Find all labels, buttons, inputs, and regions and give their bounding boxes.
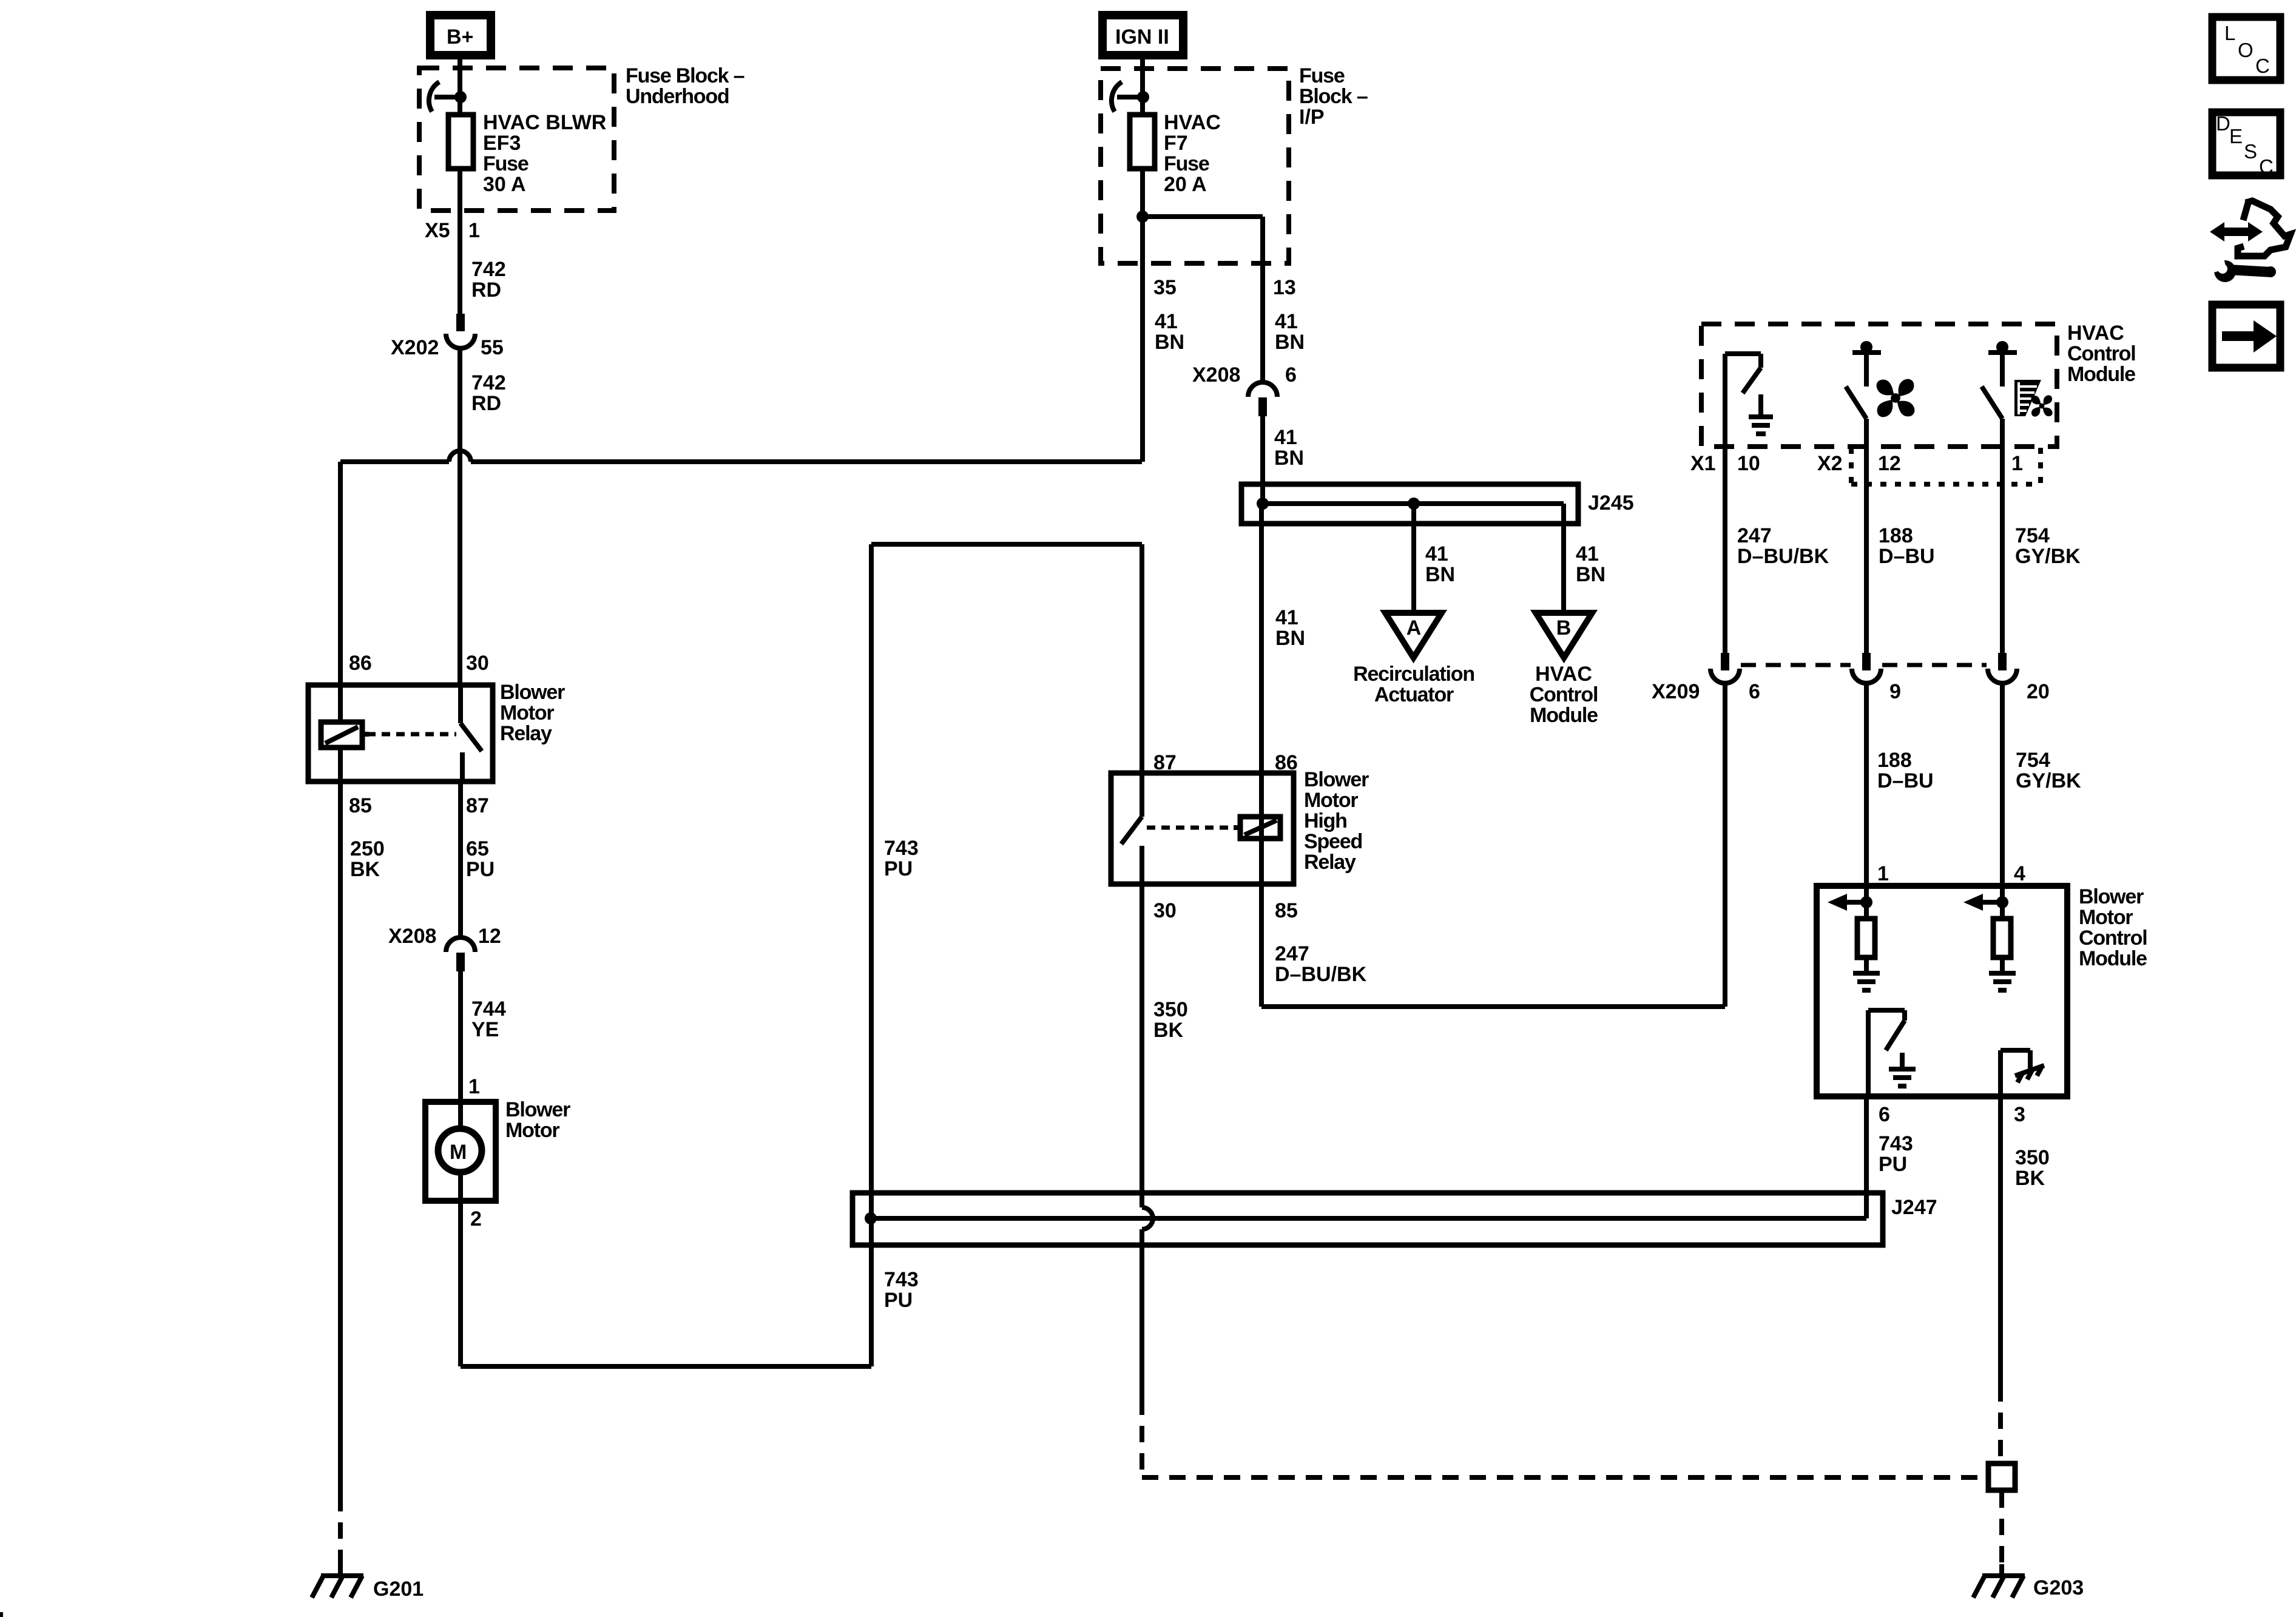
svg-text:743: 743 (884, 837, 919, 860)
svg-text:GY/BK: GY/BK (2015, 545, 2081, 568)
wire label 250 BK (350, 837, 385, 881)
wire 41 BN X208-6 to J245 (1260, 416, 1265, 504)
relay pin labels 86 30 (349, 652, 489, 675)
svg-text:D–BU: D–BU (1879, 545, 1935, 568)
svg-text:BK: BK (350, 858, 380, 881)
svg-text:20 A: 20 A (1164, 173, 1207, 196)
svg-text:Control: Control (2079, 927, 2147, 950)
svg-text:RD: RD (471, 279, 501, 302)
svg-text:J247: J247 (1891, 1196, 1937, 1219)
wire label 41 BN (pin 35) (1155, 310, 1184, 354)
svg-text:BN: BN (1275, 627, 1305, 650)
signal ground (module switch) (1889, 1053, 1916, 1086)
svg-text:Underhood: Underhood (626, 85, 729, 108)
blower motor control module label (2079, 885, 2147, 970)
svg-text:Actuator: Actuator (1374, 683, 1454, 706)
wire 744 YE to blower motor (458, 971, 463, 1102)
module pin 3 chassis ground (2001, 1050, 2044, 1096)
svg-text:65: 65 (466, 837, 489, 860)
svg-text:30 A: 30 A (483, 173, 526, 196)
blower motor high speed relay (1111, 773, 1294, 884)
svg-text:55: 55 (481, 336, 504, 359)
ground G203 (1973, 1564, 2025, 1598)
wire label 188 D-BU (lower) (1877, 749, 1934, 792)
connector X202 pin 55 (446, 314, 475, 348)
svg-text:12: 12 (478, 925, 501, 948)
svg-text:HVAC BLWR: HVAC BLWR (483, 111, 606, 134)
blower motor control module (1817, 886, 2067, 1096)
svg-text:Fuse: Fuse (1299, 64, 1345, 87)
wire 188 D-BU X2-12 to X209-9 (1864, 447, 1869, 653)
wire label 743 PU (below J247) (884, 1268, 919, 1312)
hvac control module label (triangle B) (1530, 663, 1598, 727)
svg-text:BK: BK (1153, 1019, 1184, 1042)
wire label 41 BN (below X208-6) (1274, 426, 1304, 470)
module input 4: arrow, resistor, ground (1963, 886, 2016, 990)
svg-text:BN: BN (1576, 563, 1606, 586)
power symbol IGN II (1102, 15, 1183, 55)
svg-text:20: 20 (2027, 680, 2050, 703)
svg-text:F7: F7 (1164, 132, 1188, 155)
svg-text:85: 85 (1275, 899, 1298, 922)
svg-text:86: 86 (349, 652, 372, 675)
svg-text:Motor: Motor (505, 1119, 559, 1142)
blower motor relay (308, 685, 493, 781)
svg-text:742: 742 (471, 371, 506, 394)
wire label 247 D-BU/BK (upper) (1737, 524, 1829, 568)
svg-text:Motor: Motor (500, 701, 554, 724)
recirculation actuator label (1353, 663, 1474, 706)
svg-text:87: 87 (466, 794, 489, 817)
blower speed icon (2014, 380, 2053, 417)
svg-text:C: C (2259, 155, 2274, 178)
blower motor (425, 1102, 496, 1201)
svg-text:PU: PU (884, 857, 913, 880)
wire 41 BN fuse F7 down (1140, 169, 1145, 462)
fuse block underhood label (626, 64, 745, 108)
wire coil feed horizontal with hop over 742 RD (340, 451, 1142, 685)
MIDDLE (853, 15, 1988, 1477)
connector X209 pin 20 (1988, 653, 2017, 683)
wire 754 GY/BK X2-1 to X209-20 (2000, 447, 2005, 653)
svg-text:30: 30 (466, 652, 489, 675)
bus bar hook (underhood) (429, 82, 439, 112)
svg-text:188: 188 (1877, 749, 1912, 772)
hvac control module label (2067, 322, 2135, 386)
svg-text:Block –: Block – (1299, 85, 1368, 108)
fan icon (1877, 379, 1915, 417)
svg-text:41: 41 (1425, 542, 1448, 565)
svg-text:4: 4 (2014, 862, 2025, 885)
module pin labels 1 4 (1877, 862, 2025, 885)
wire IGN II to fuse F7 (1140, 59, 1145, 115)
svg-text:30: 30 (1153, 899, 1177, 922)
svg-text:High: High (1304, 809, 1347, 832)
wire label 742 RD (upper) (471, 258, 506, 302)
wire 742 RD X202 to relay pin 30 (458, 347, 462, 685)
svg-text:L: L (2224, 22, 2235, 44)
desc icon box (2212, 112, 2280, 178)
module output switch to ground (pin 6) (1868, 1010, 1905, 1096)
junction dot (I/P bus) (1137, 91, 1149, 103)
svg-text:J245: J245 (1588, 491, 1634, 515)
blower motor relay label (500, 681, 565, 745)
signal ground (X1-10 switch) (1749, 394, 1773, 434)
svg-text:41: 41 (1275, 606, 1298, 629)
svg-text:35: 35 (1153, 276, 1177, 299)
svg-text:Module: Module (2079, 947, 2147, 970)
wire 743 PU module pin 6 to J247 (1864, 1096, 1869, 1218)
svg-text:Relay: Relay (500, 722, 552, 745)
fuse block I/P label (1299, 64, 1368, 129)
wire B+ to fuse EF3 (458, 59, 462, 115)
high speed relay pin labels 30 85 (1153, 899, 1298, 922)
svg-text:PU: PU (884, 1289, 913, 1312)
module speed switch (X2-1) (1982, 341, 2017, 447)
svg-text:743: 743 (1879, 1132, 1913, 1155)
svg-text:E: E (2229, 125, 2243, 147)
wire label 754 GY/BK (lower) (2016, 749, 2081, 792)
svg-text:BK: BK (2015, 1167, 2045, 1190)
high speed relay coil (1234, 817, 1280, 839)
fuse EF3 (448, 115, 473, 169)
wire label 41 BN (to relay 86) (1275, 606, 1305, 650)
pin labels 35 13 (1153, 276, 1296, 299)
wire label 742 RD (lower) (471, 371, 506, 415)
blower motor high speed relay label (1304, 768, 1369, 874)
svg-text:GY/BK: GY/BK (2016, 769, 2081, 792)
fuse EF3 labels (483, 111, 606, 196)
svg-text:IGN II: IGN II (1115, 25, 1169, 49)
connector view icon (car outline, arrow, wrench) (2210, 201, 2291, 282)
connector X208 pin 12 (446, 937, 475, 971)
wire branch to pin 13 (1143, 217, 1263, 382)
svg-text:742: 742 (471, 258, 506, 281)
svg-text:41: 41 (1155, 310, 1178, 333)
svg-text:HVAC: HVAC (1164, 111, 1221, 134)
off-page connector B (1536, 613, 1592, 658)
connector X209 pin 9 (1852, 653, 1881, 683)
svg-text:PU: PU (466, 858, 495, 881)
svg-text:754: 754 (2016, 749, 2050, 772)
svg-text:Relay: Relay (1304, 851, 1356, 874)
splice pack J247 (853, 1193, 1883, 1245)
svg-text:BN: BN (1275, 331, 1305, 354)
loc icon box (2212, 17, 2280, 80)
wire 250 BK relay to G201 (338, 781, 343, 1574)
wire 742 RD fuse to X202 (458, 169, 462, 314)
wire 350 BK relay 30 down with hop at J247 (1142, 884, 1988, 1477)
svg-text:HVAC: HVAC (2067, 322, 2124, 345)
junction dot fuse output (1136, 211, 1149, 223)
relay coil (321, 722, 369, 748)
svg-text:41: 41 (1274, 426, 1297, 449)
wire 247 D-BU/BK X1-10 to X209-6 (1723, 447, 1727, 653)
svg-text:Speed: Speed (1304, 830, 1362, 853)
svg-text:10: 10 (1737, 452, 1760, 475)
svg-text:I/P: I/P (1299, 106, 1325, 129)
svg-text:1: 1 (468, 1075, 480, 1098)
svg-text:X209: X209 (1652, 680, 1700, 703)
svg-text:744: 744 (471, 998, 506, 1021)
svg-text:Control: Control (2067, 342, 2135, 365)
wire 350 BK module pin 3 to G203 (1998, 1096, 2003, 1462)
svg-text:6: 6 (1749, 680, 1760, 703)
module pin labels 6 3 (1879, 1103, 2025, 1126)
relay pin labels 85 87 (349, 794, 489, 817)
svg-text:188: 188 (1879, 524, 1913, 547)
svg-text:41: 41 (1576, 542, 1599, 565)
svg-text:B: B (1556, 616, 1572, 640)
svg-text:247: 247 (1737, 524, 1772, 547)
connector X209 pin 6 (1710, 653, 1740, 683)
fuse block underhood dashed box (419, 68, 614, 211)
splice pack J245 (1241, 484, 1578, 524)
svg-text:D–BU: D–BU (1877, 769, 1934, 792)
svg-text:Blower: Blower (1304, 768, 1369, 791)
fuse block I/P dashed box (1101, 69, 1289, 263)
connector X209 labels (1652, 680, 2050, 703)
svg-text:D: D (2216, 112, 2230, 135)
svg-text:350: 350 (2015, 1146, 2050, 1169)
svg-text:YE: YE (471, 1018, 499, 1041)
connector X208 pin 6 labels (1192, 363, 1297, 387)
connector X202 labels (391, 336, 504, 359)
svg-text:Module: Module (2067, 363, 2135, 386)
svg-text:A: A (1406, 616, 1422, 640)
wire label 744 YE (471, 998, 506, 1041)
svg-text:B+: B+ (447, 25, 473, 49)
next page icon (arrow box) (2212, 305, 2280, 368)
wire label 65 PU (466, 837, 495, 881)
wire label 247 D-BU/BK (relay 85) (1275, 942, 1367, 986)
svg-text:G203: G203 (2033, 1576, 2084, 1599)
wire J245 to triangle A (1411, 504, 1416, 610)
wire 743 PU riser to high speed relay (871, 544, 1142, 1218)
relay switch arm (461, 723, 482, 781)
svg-text:1: 1 (2011, 452, 2023, 475)
module input 1: arrow, resistor, ground (1828, 886, 1880, 990)
power symbol B+ (430, 15, 491, 55)
page artifact dot (0, 1612, 3, 1617)
svg-text:1: 1 (468, 219, 480, 242)
wire label 743 PU (riser) (884, 837, 919, 880)
svg-text:3: 3 (2014, 1103, 2025, 1126)
relay dashed actuation link (367, 732, 456, 737)
wire J245 to triangle B (1561, 504, 1566, 610)
svg-text:G201: G201 (373, 1578, 424, 1601)
svg-text:41: 41 (1275, 310, 1298, 333)
wire label 41 BN (triangle A) (1425, 542, 1455, 586)
svg-text:HVAC: HVAC (1535, 663, 1592, 686)
connector X2 dotted box (1851, 448, 2041, 484)
svg-text:85: 85 (349, 794, 372, 817)
svg-text:9: 9 (1889, 680, 1901, 703)
RIGHT (1652, 322, 2147, 1599)
svg-text:1: 1 (1877, 862, 1889, 885)
wire X209-20 to module pin 4 (2000, 682, 2005, 886)
svg-text:12: 12 (1878, 452, 1901, 475)
svg-text:Module: Module (1530, 704, 1598, 727)
svg-text:6: 6 (1285, 363, 1297, 387)
svg-text:Blower: Blower (2079, 885, 2144, 908)
svg-text:EF3: EF3 (483, 132, 521, 155)
wire X209-9 to module pin 1 (1864, 682, 1869, 886)
svg-text:247: 247 (1275, 942, 1309, 965)
svg-text:13: 13 (1273, 276, 1296, 299)
pin labels X5 1 (425, 219, 480, 242)
svg-text:250: 250 (350, 837, 385, 860)
svg-text:Motor: Motor (1304, 789, 1358, 812)
svg-text:PU: PU (1879, 1153, 1907, 1176)
svg-text:6: 6 (1879, 1103, 1890, 1126)
svg-text:350: 350 (1153, 998, 1188, 1021)
svg-text:S: S (2244, 140, 2257, 163)
svg-text:M: M (450, 1141, 467, 1164)
wire 41 BN J245 to high speed relay 86 (1259, 504, 1264, 773)
svg-text:Blower: Blower (505, 1098, 570, 1121)
svg-text:X208: X208 (388, 925, 436, 948)
wire 247 D-BU/BK relay 85 to X209-6 (1261, 884, 1725, 1007)
wire label 754 GY/BK (upper) (2015, 524, 2081, 568)
high speed relay switch arm (1121, 817, 1142, 884)
svg-text:Recirculation: Recirculation (1353, 663, 1474, 686)
SIDEBAR ICONS (2210, 17, 2291, 368)
svg-text:X1: X1 (1690, 452, 1716, 475)
svg-text:Control: Control (1530, 683, 1598, 706)
svg-text:C: C (2255, 55, 2270, 77)
wire label 188 D-BU (upper) (1879, 524, 1935, 568)
svg-text:754: 754 (2015, 524, 2050, 547)
svg-text:743: 743 (884, 1268, 919, 1291)
high speed relay dashed actuation link (1147, 826, 1239, 830)
wire X209-6 down to corner (1723, 682, 1727, 1007)
fuse F7 labels (1164, 111, 1221, 196)
wire blower motor to 743 PU riser (461, 1201, 871, 1366)
wire label 350 BK (pin 3) (2015, 1146, 2050, 1190)
svg-text:O: O (2238, 39, 2254, 61)
high speed relay pin labels 87 86 (1153, 751, 1298, 774)
wire splice square to G203 (1999, 1491, 2004, 1573)
connector X208 pin 6 (1248, 382, 1277, 416)
blower motor label (505, 1098, 570, 1142)
svg-text:Fuse Block –: Fuse Block – (626, 64, 745, 87)
module switch to ground (X1-10) (1725, 354, 1761, 447)
connector X209 dashed link (1741, 663, 1987, 667)
connector X208 pin 12 labels (388, 925, 501, 948)
junction dot (underhood bus) (454, 91, 467, 103)
svg-text:D–BU/BK: D–BU/BK (1275, 963, 1367, 986)
svg-text:RD: RD (471, 392, 501, 415)
pin labels X1 10 X2 12 1 (1690, 452, 2023, 475)
svg-text:BN: BN (1274, 447, 1304, 470)
fuse F7 (1130, 115, 1155, 169)
svg-text:X5: X5 (425, 219, 450, 242)
svg-text:BN: BN (1425, 563, 1455, 586)
wire label 350 BK (relay 30) (1153, 998, 1188, 1042)
hvac control module dashed box (1701, 324, 2057, 447)
ground G201 (312, 1564, 363, 1598)
svg-text:Fuse: Fuse (483, 152, 528, 175)
wire label 41 BN (triangle B) (1576, 542, 1606, 586)
svg-text:Motor: Motor (2079, 906, 2133, 929)
svg-text:D–BU/BK: D–BU/BK (1737, 545, 1829, 568)
off-page connector A (1385, 613, 1442, 658)
svg-text:BN: BN (1155, 331, 1184, 354)
svg-text:2: 2 (470, 1207, 482, 1230)
module fan switch (X2-12) (1846, 341, 1881, 447)
bus bar hook (I/P) (1112, 82, 1122, 112)
splice square (350 BK) (1988, 1463, 2015, 1490)
svg-text:X2: X2 (1817, 452, 1843, 475)
svg-text:Fuse: Fuse (1164, 152, 1209, 175)
wire 65 PU relay to X208-12 (458, 781, 463, 937)
wire label 743 PU (pin 6) (1879, 1132, 1913, 1176)
svg-text:Blower: Blower (500, 681, 565, 704)
svg-text:X202: X202 (391, 336, 439, 359)
svg-text:X208: X208 (1192, 363, 1240, 387)
wire label 41 BN (pin 13) (1275, 310, 1305, 354)
